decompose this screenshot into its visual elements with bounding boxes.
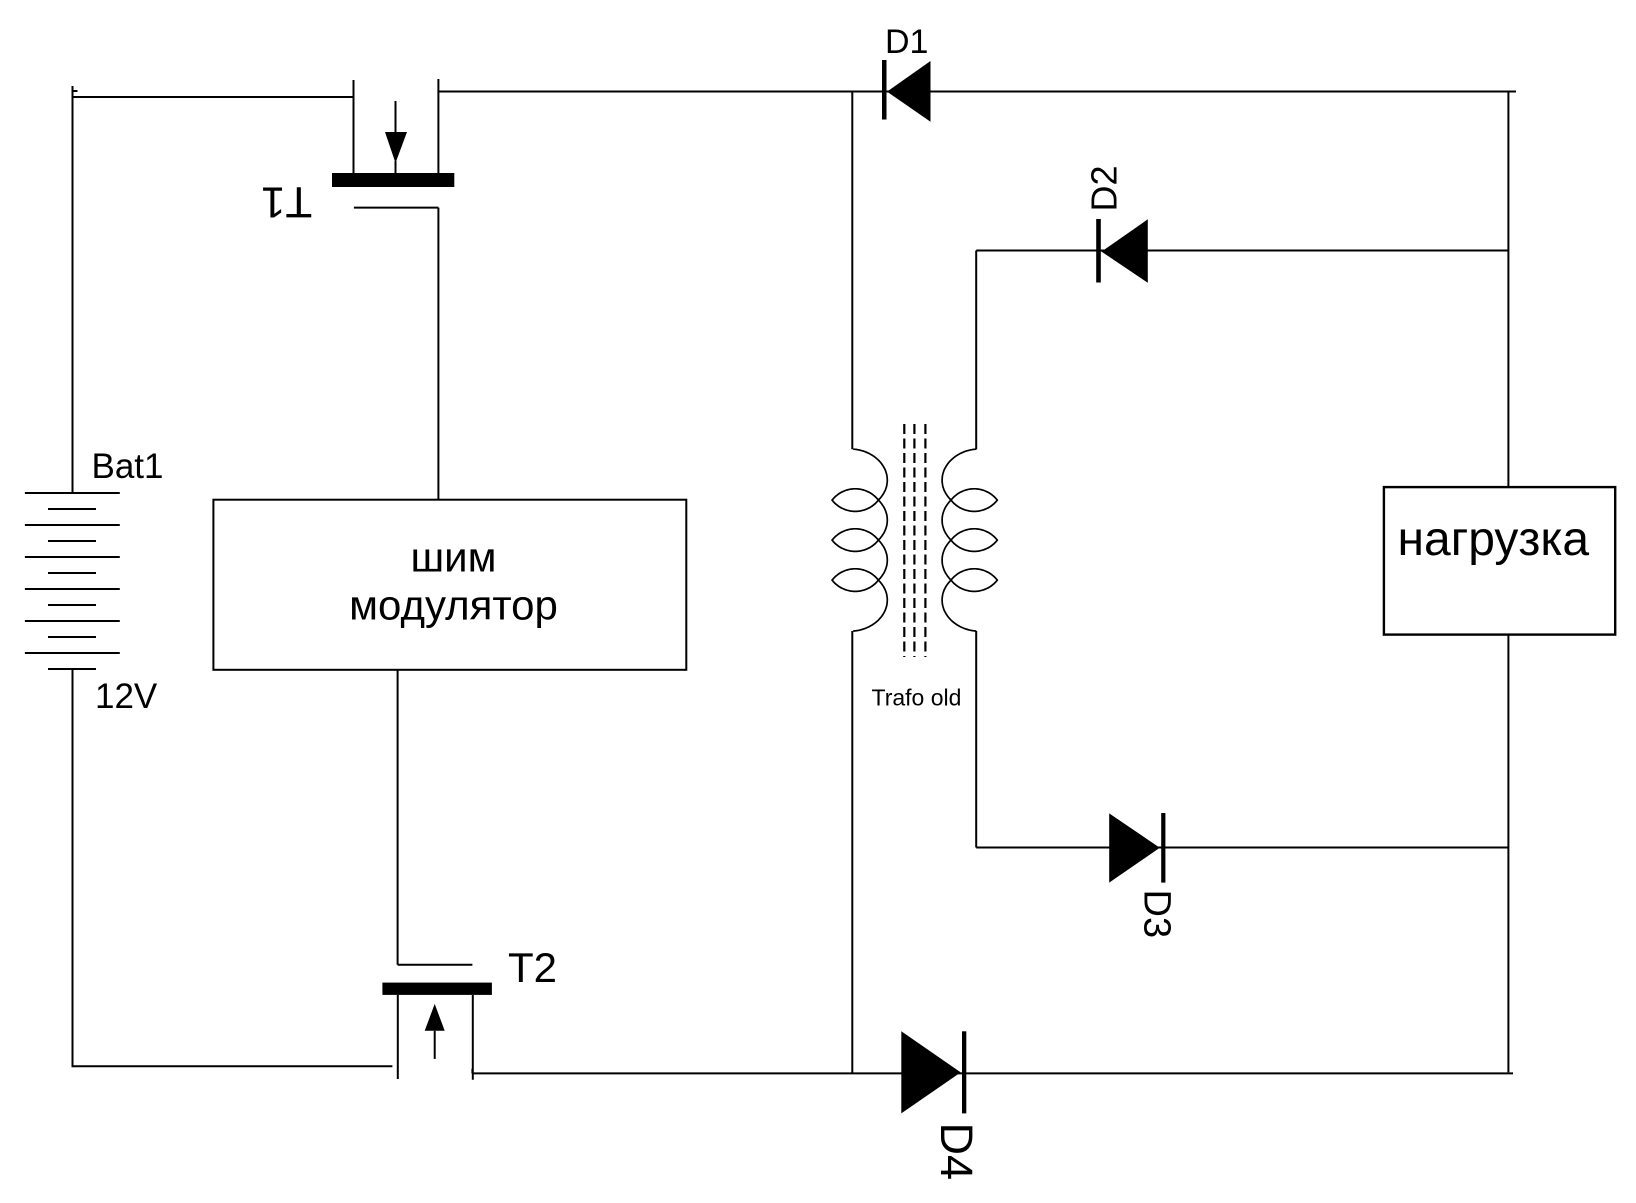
transistor T2 source lead	[397, 995, 399, 1079]
wire stub top-left	[73, 90, 78, 92]
wire bottom-left horizontal to T2 source	[73, 1065, 393, 1067]
diode D1 cathode bar	[882, 60, 887, 120]
wire bottom-right horizontal (T2 to D4 to right rail)	[472, 1072, 1513, 1074]
diode D3 triangle	[1109, 813, 1160, 882]
transformer right winding	[942, 449, 997, 631]
PWM modulator box	[213, 500, 686, 670]
wire PWM box output down to T2 gate	[397, 670, 399, 965]
transformer left winding	[832, 449, 887, 631]
transistor T1 arrow head (down)	[385, 132, 407, 163]
wire D3 row horizontal	[976, 847, 1508, 849]
diode D4 cathode bar	[962, 1031, 966, 1113]
transistor T1 source lead	[437, 79, 439, 173]
wire right rail upper	[1507, 92, 1509, 488]
svg-text:нагрузка: нагрузка	[1397, 513, 1589, 566]
diode D3 cathode bar	[1161, 813, 1165, 883]
wire secondary bottom drop to D3 row	[975, 631, 977, 848]
load box	[1384, 487, 1615, 634]
wire top-left horizontal from battery rail to T1	[73, 96, 354, 98]
wire top-right horizontal (T1 to D1 to right rail)	[438, 91, 1516, 93]
diode D2 triangle	[1102, 219, 1148, 282]
transistor T2 drain lead	[472, 995, 474, 1080]
svg-text:D4: D4	[931, 1123, 982, 1181]
wire left rail upper (battery plus to top)	[72, 86, 74, 493]
svg-text:D1: D1	[885, 23, 928, 61]
transistor T1 arrow stem	[395, 101, 397, 132]
wire right rail lower	[1507, 635, 1509, 1073]
diode D2 cathode bar	[1096, 219, 1101, 283]
svg-text:D3: D3	[1136, 890, 1178, 939]
wire secondary top drop to D2 row	[975, 251, 977, 450]
wire transformer primary bottom drop	[851, 631, 853, 1073]
transistor T1 arrow tail to gate bar	[395, 161, 397, 173]
svg-text:модулятор: модулятор	[349, 582, 558, 629]
transistor T1 gate bar	[332, 173, 454, 187]
wire left rail lower (battery minus down)	[72, 669, 74, 1067]
svg-text:D2: D2	[1084, 165, 1125, 211]
transistor T1 drain lead	[353, 80, 355, 173]
svg-text:12V: 12V	[95, 677, 158, 716]
wire bottom-right tick	[471, 1069, 473, 1074]
wire transformer primary top drop	[851, 92, 853, 450]
svg-text:T2: T2	[508, 944, 557, 991]
battery Bat1 plates	[25, 493, 120, 669]
transformer core dashed lines	[904, 424, 925, 657]
svg-text:Bat1: Bat1	[92, 447, 164, 486]
wire D2 row horizontal	[976, 250, 1508, 252]
diode D1 triangle	[887, 61, 931, 122]
transistor T2 upper electrode line	[398, 964, 473, 966]
transistor T1 lower electrode line	[354, 207, 439, 209]
transistor T2 arrow stem	[434, 1031, 436, 1059]
diode D4 triangle	[901, 1031, 960, 1113]
svg-text:Trafo old: Trafo old	[872, 685, 962, 711]
wire T1 gate down to PWM box	[437, 208, 439, 500]
svg-text:шим: шим	[410, 534, 496, 581]
transistor T2 arrow head (up)	[425, 1004, 445, 1031]
svg-text:T1: T1	[261, 178, 312, 227]
transistor T2 gate bar	[382, 983, 492, 995]
